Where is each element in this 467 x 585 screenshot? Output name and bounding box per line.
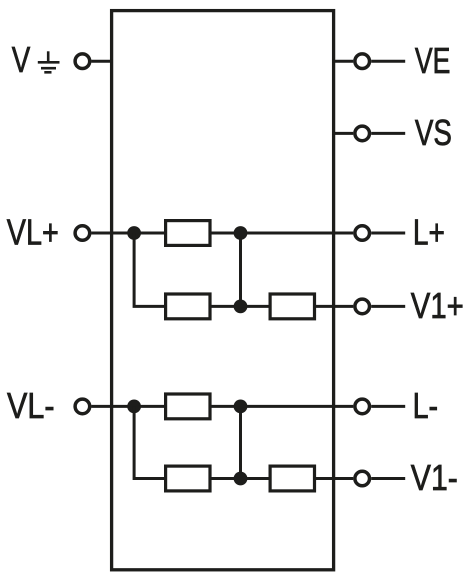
wire V terminal to body xyxy=(91,60,113,63)
terminal circle V1+ xyxy=(355,299,370,314)
wire resistor to upper mid dot xyxy=(210,232,242,235)
wire resistor through body to V1- terminal xyxy=(315,477,354,480)
wire V1+ dot to resistor xyxy=(241,305,271,308)
resistor lower row2 right xyxy=(270,466,314,491)
junction dot lower-left xyxy=(127,400,141,414)
junction dot V1- xyxy=(234,472,248,486)
wire VL+ terminal to body xyxy=(91,232,113,235)
terminal circle VL+ xyxy=(75,226,90,241)
svg-text:VE: VE xyxy=(415,40,451,81)
terminal circle L+ xyxy=(355,226,370,241)
svg-text:L+: L+ xyxy=(413,212,445,253)
wire VL- internal row xyxy=(112,405,165,408)
wire upper mid vertical xyxy=(239,233,242,306)
svg-text:L-: L- xyxy=(413,385,439,426)
wire VL+ internal row xyxy=(112,232,165,235)
resistor upper row2 left xyxy=(166,294,210,319)
resistor upper row1 xyxy=(166,221,210,246)
wire upper mid dot to body right xyxy=(241,232,334,235)
wire VE terminal to label xyxy=(371,60,405,63)
terminal circle V xyxy=(75,54,90,69)
wire L+ terminal to label xyxy=(371,232,405,235)
terminal circle VS xyxy=(355,126,370,141)
wire lower mid vertical xyxy=(239,406,242,478)
wire lower mid dot to body right xyxy=(241,405,334,408)
device body outline xyxy=(112,11,334,570)
svg-text:VL+: VL+ xyxy=(7,212,59,253)
wire resistor to V1+ dot xyxy=(210,305,242,308)
wire body to VE terminal xyxy=(332,60,353,63)
resistor lower row2 left xyxy=(166,466,210,491)
wire resistor to lower mid dot xyxy=(210,405,242,408)
wire body to VS terminal xyxy=(332,132,353,135)
wire body to L- terminal xyxy=(332,405,353,408)
terminal circle V1- xyxy=(355,471,370,486)
wire L- terminal to label xyxy=(371,405,405,408)
terminal circle L- xyxy=(355,399,370,414)
svg-text:V1-: V1- xyxy=(411,457,458,498)
wire resistor through body to V1+ terminal xyxy=(315,305,354,308)
svg-text:VL-: VL- xyxy=(7,385,55,426)
svg-text:V1+: V1+ xyxy=(411,285,464,326)
wire VL- terminal to body xyxy=(91,405,113,408)
junction dot upper-mid xyxy=(234,226,248,240)
wire resistor to V1- dot xyxy=(210,477,242,480)
wire VS terminal to label xyxy=(371,132,405,135)
wire body to L+ terminal xyxy=(332,232,353,235)
svg-text:VS: VS xyxy=(415,112,452,153)
junction dot upper-left xyxy=(127,226,141,240)
wire V1+ terminal to label xyxy=(371,305,405,308)
ground symbol xyxy=(38,51,60,72)
resistor lower row1 xyxy=(166,394,210,419)
wire V1- terminal to label xyxy=(371,477,405,480)
resistor upper row2 right xyxy=(270,294,314,319)
terminal circle VL- xyxy=(75,399,90,414)
svg-text:V: V xyxy=(12,39,31,80)
terminal circle VE xyxy=(355,54,370,69)
wire lower-left branch down xyxy=(134,406,165,478)
junction dot V1+ xyxy=(234,300,248,314)
wire V1- dot to resistor xyxy=(241,477,271,480)
junction dot lower-mid xyxy=(234,400,248,414)
wire upper-left branch down xyxy=(134,233,165,306)
